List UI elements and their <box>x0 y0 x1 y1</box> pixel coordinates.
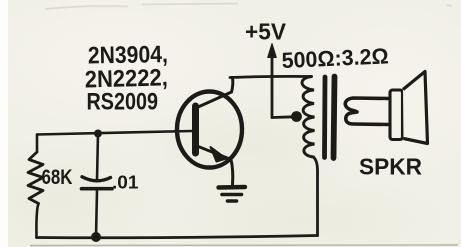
+5V supply arrow <box>268 44 277 118</box>
wire transformer bottom to bottom rail <box>314 157 318 236</box>
label .01 <box>112 172 139 193</box>
wire left rail <box>36 135 38 238</box>
svg-text:500Ω:3.2Ω: 500Ω:3.2Ω <box>281 43 389 73</box>
wire from +5V to transformer tap <box>272 115 294 118</box>
wire collector to transformer top <box>230 76 312 77</box>
speaker SPKR cone <box>403 72 428 144</box>
svg-text:RS2009: RS2009 <box>87 89 159 116</box>
transformer T1 core bars <box>325 77 335 159</box>
resistor 68K <box>28 152 43 204</box>
ground symbol <box>219 187 246 201</box>
label transistor types 2N3904, 2N2222, RS2009 <box>84 41 168 115</box>
transistor Q1 emitter arrowhead <box>211 147 227 162</box>
svg-text:+5V: +5V <box>245 19 286 45</box>
transformer T1 primary winding <box>302 77 314 158</box>
transistor Q1 collector lead <box>197 78 233 108</box>
wire top node horizontal (base node) <box>37 131 192 135</box>
transistor Q1 emitter lead with arrow <box>197 146 233 185</box>
speaker SPKR driver rectangle <box>390 90 403 140</box>
label +5V <box>245 19 286 45</box>
label 68K <box>42 166 73 189</box>
svg-text:SPKR: SPKR <box>359 154 422 180</box>
wire bottom rail <box>37 236 318 238</box>
svg-text:.01: .01 <box>112 172 139 193</box>
transistor Q1 base bar <box>192 106 199 153</box>
capacitor .01 <box>82 134 113 238</box>
junction node dot transformer tap <box>291 111 302 122</box>
junction node dot at capacitor bottom <box>91 232 101 242</box>
transformer T1 secondary winding <box>345 98 389 125</box>
label SPKR <box>359 154 422 180</box>
label 500ohm : 3.2ohm <box>281 43 389 73</box>
junction node dot at capacitor top <box>94 130 102 138</box>
svg-text:68K: 68K <box>42 166 73 189</box>
transistor Q1 circle <box>177 92 242 168</box>
